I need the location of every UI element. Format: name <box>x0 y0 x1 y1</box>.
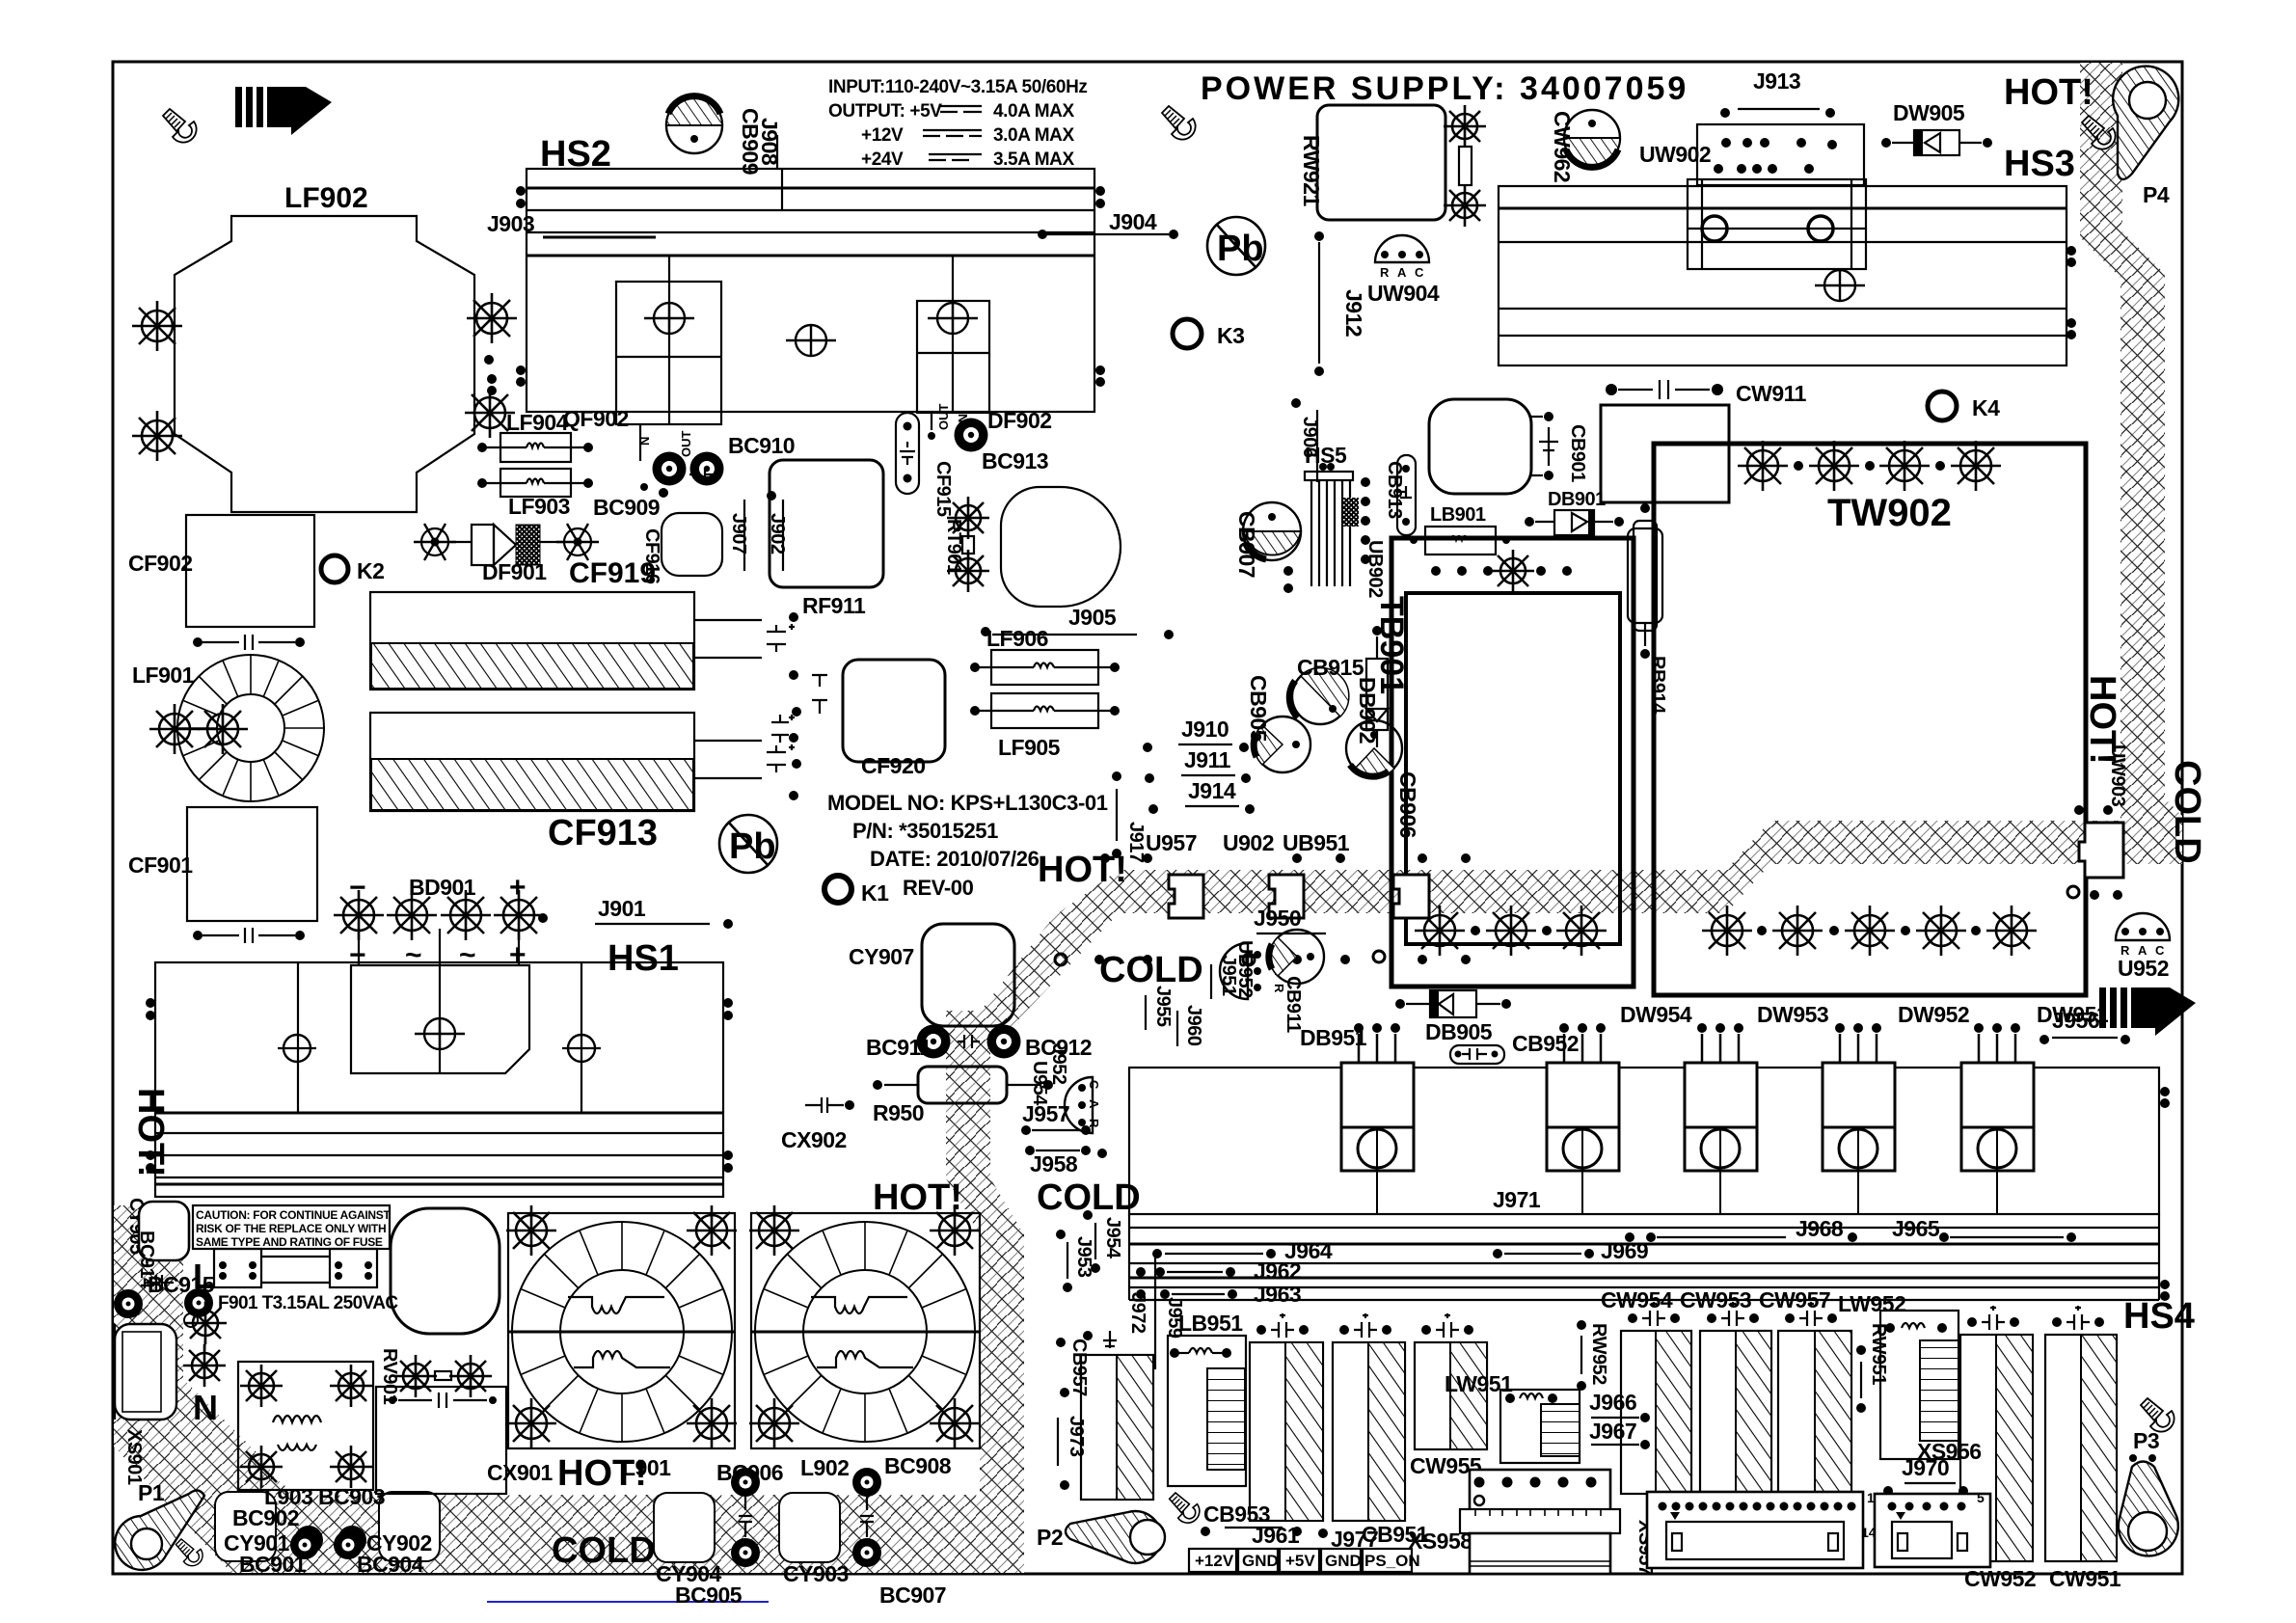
svg-text:HS1: HS1 <box>608 938 679 979</box>
dots <box>789 733 798 743</box>
cap between <box>958 1035 980 1048</box>
inductor LF904 <box>500 433 571 462</box>
svg-text:DATE: 2010/07/26: DATE: 2010/07/26 <box>870 847 1040 871</box>
svg-text:J914: J914 <box>1188 778 1236 803</box>
svg-text:HOT!: HOT! <box>873 1177 962 1218</box>
diode DF902 <box>917 301 989 413</box>
svg-text:POWER SUPPLY: 34007059: POWER SUPPLY: 34007059 <box>1201 70 1688 107</box>
svg-text:J962: J962 <box>1254 1258 1301 1284</box>
svg-text:J963: J963 <box>1254 1282 1301 1307</box>
hole K1 <box>824 876 851 903</box>
svg-text:LB901: LB901 <box>1430 504 1486 526</box>
wire J905 <box>992 634 1137 636</box>
svg-text:CF913: CF913 <box>548 813 658 853</box>
diode DF901 square <box>472 525 494 565</box>
resistor RB914 <box>1628 528 1662 623</box>
HS1 holes <box>284 1035 311 1062</box>
cap sym left of CF920 <box>812 675 827 714</box>
capacitor CB913 <box>1397 455 1416 535</box>
hatch strip bottom horizontal <box>231 1495 1017 1573</box>
dot <box>1169 230 1178 239</box>
svg-text:+: + <box>509 872 527 904</box>
svg-text:CB957: CB957 <box>1068 1339 1090 1396</box>
dot <box>1038 230 1047 239</box>
capacitor CW957 <box>1778 1331 1851 1494</box>
svg-text:HOT!: HOT! <box>130 1088 171 1177</box>
svg-text:DB901: DB901 <box>1548 489 1606 510</box>
dots LF902 <box>484 355 494 365</box>
mount star <box>198 704 248 754</box>
hole K4 <box>1928 392 1957 420</box>
cap sym <box>145 1275 174 1290</box>
capacitor CW953 <box>1700 1331 1771 1494</box>
TW902 bottom stars <box>1702 906 1752 956</box>
svg-text:CX901: CX901 <box>487 1460 554 1485</box>
svg-text:CB915: CB915 <box>1297 655 1364 680</box>
diode DB901 <box>1525 510 1624 535</box>
svg-text:CW951: CW951 <box>2049 1566 2121 1591</box>
capacitor CB-B <box>1333 1342 1405 1521</box>
thermistor RT901 <box>947 497 989 539</box>
star <box>1444 184 1486 227</box>
hatch strip right vertical (top) <box>2080 63 2182 864</box>
capacitor rounded blob <box>1429 399 1531 494</box>
svg-text:UW903: UW903 <box>2107 744 2128 807</box>
toroid L901 <box>506 1205 737 1448</box>
svg-text:J907: J907 <box>728 513 749 555</box>
capacitor CY905 <box>139 1202 189 1260</box>
svg-text:P3: P3 <box>2133 1428 2159 1453</box>
pad BC914 <box>114 1289 143 1318</box>
capacitor CB906 <box>1346 720 1402 776</box>
svg-text:CF901: CF901 <box>128 852 193 878</box>
no-lead symbol Pb <box>719 815 777 873</box>
HS1 dividers <box>297 962 299 1113</box>
IC RF911 <box>770 460 883 587</box>
svg-text:CF915: CF915 <box>932 461 954 517</box>
no-lead symbol Pb <box>1207 217 1265 275</box>
svg-text:CY903: CY903 <box>783 1561 849 1586</box>
tie P2 <box>1066 1511 1165 1563</box>
capacitor CB905 <box>1254 717 1310 772</box>
svg-text:5: 5 <box>1977 1490 1985 1505</box>
svg-text:J957: J957 <box>1022 1101 1069 1126</box>
svg-text:UB951: UB951 <box>1283 830 1350 855</box>
heatsink HS2 body <box>527 169 1094 412</box>
svg-text:DB902: DB902 <box>1355 677 1380 744</box>
capacitor CF901 <box>187 807 317 921</box>
svg-text:J954: J954 <box>1102 1217 1123 1259</box>
svg-text:J968: J968 <box>1796 1216 1844 1241</box>
connector XS957 <box>1647 1492 1863 1568</box>
screw top-left <box>163 109 197 143</box>
svg-text:J905: J905 <box>1068 605 1117 630</box>
svg-text:J960: J960 <box>1183 1005 1204 1046</box>
svg-text:CW911: CW911 <box>1736 381 1807 406</box>
cap plus symbol <box>767 624 795 652</box>
svg-text:L: L <box>193 1257 214 1296</box>
inductor LF903 <box>500 469 571 497</box>
inductor block LW952 <box>1880 1311 1958 1459</box>
svg-text:CF920: CF920 <box>861 753 926 778</box>
transformer TW902 <box>1654 444 2086 995</box>
svg-text:J965: J965 <box>1892 1216 1940 1241</box>
svg-text:GND: GND <box>1242 1552 1279 1570</box>
HS1 band lines <box>155 1112 723 1115</box>
HS3 edge dots <box>2066 246 2076 256</box>
IC UB902 <box>1343 498 1359 527</box>
svg-text:J903: J903 <box>487 211 534 236</box>
screw <box>176 1539 203 1566</box>
svg-text:P4: P4 <box>2143 182 2170 207</box>
transformer TB901 <box>1391 538 1634 987</box>
svg-text:COLD: COLD <box>1099 950 1203 990</box>
svg-text:CAUTION: FOR CONTINUE AGAINST: CAUTION: FOR CONTINUE AGAINST <box>196 1208 391 1222</box>
BD901 hole <box>415 1018 465 1049</box>
svg-text:CB906: CB906 <box>1395 771 1420 838</box>
svg-text:REV-00: REV-00 <box>903 876 974 900</box>
svg-text:L903: L903 <box>264 1484 312 1509</box>
diode DB902 <box>1366 659 1388 730</box>
svg-text:HOT!: HOT! <box>1038 850 1127 890</box>
dots under strip <box>1055 954 1067 965</box>
svg-text:U952: U952 <box>2118 956 2169 981</box>
QF902 hole <box>644 303 694 334</box>
svg-text:R950: R950 <box>873 1100 924 1125</box>
TB901 top star <box>1492 550 1534 592</box>
svg-text:RB914: RB914 <box>1647 656 1668 715</box>
svg-text:J973: J973 <box>1066 1416 1087 1457</box>
cap body oval <box>1001 487 1121 607</box>
svg-text:J972: J972 <box>1127 1292 1148 1334</box>
svg-text:BC910: BC910 <box>728 433 795 458</box>
transistor U954 <box>1065 1077 1101 1133</box>
wire J917 <box>1116 789 1118 841</box>
connector XS956 <box>1875 1494 1990 1567</box>
screw P3 <box>2141 1398 2174 1432</box>
svg-text:P2: P2 <box>1037 1525 1063 1550</box>
dots BC909 <box>659 488 668 498</box>
HS2 fin line <box>527 187 1094 190</box>
opto U957 <box>1169 875 1203 918</box>
svg-text:DB905: DB905 <box>1425 1019 1493 1044</box>
inductor block LB951 <box>1168 1336 1246 1486</box>
svg-text:LF904: LF904 <box>506 410 569 435</box>
cap pair <box>771 715 795 743</box>
capacitor CW952 <box>1960 1335 2033 1561</box>
capacitor CW962 <box>1564 110 1620 167</box>
resistor R950 <box>918 1067 1007 1103</box>
pad BC915 <box>184 1288 213 1317</box>
cap sym <box>1271 1313 1294 1338</box>
svg-text:A: A <box>1397 265 1407 280</box>
svg-text:CW962: CW962 <box>1550 111 1575 182</box>
svg-text:QF902: QF902 <box>563 406 629 431</box>
resistor small <box>1459 147 1472 185</box>
svg-text:BC913: BC913 <box>982 448 1048 473</box>
opto UB951 <box>1393 875 1429 918</box>
filter L903 <box>238 1362 373 1490</box>
svg-text:PS_ON: PS_ON <box>1364 1552 1420 1570</box>
svg-text:K3: K3 <box>1217 323 1244 348</box>
wire J904 <box>1046 233 1169 235</box>
svg-text:−: − <box>349 872 366 904</box>
svg-text:CF919: CF919 <box>569 557 656 589</box>
resistor RW921 <box>1317 105 1445 220</box>
svg-text:CF902: CF902 <box>128 551 193 576</box>
QF902 leads <box>639 424 641 461</box>
svg-text:+5V: +5V <box>1285 1552 1315 1570</box>
svg-text:XS901: XS901 <box>123 1429 145 1485</box>
cap plus symbol <box>767 744 795 772</box>
screw <box>2082 116 2116 149</box>
pad BC904 <box>334 1530 363 1559</box>
capacitor CB-C <box>1415 1342 1487 1449</box>
pad BC901 <box>290 1530 319 1559</box>
diode DF902 vertical lead <box>952 256 954 413</box>
svg-text:LB951: LB951 <box>1178 1311 1243 1336</box>
svg-text:J953: J953 <box>1073 1236 1094 1278</box>
capacitor bank CF919 <box>370 592 694 690</box>
toroid L902 <box>749 1205 980 1448</box>
svg-text:BC904: BC904 <box>357 1552 424 1577</box>
svg-text:CX902: CX902 <box>781 1127 847 1152</box>
svg-text:LW951: LW951 <box>1445 1371 1513 1396</box>
hole K3 <box>1173 319 1202 348</box>
cutout CY901 <box>215 1492 276 1561</box>
terminal labels <box>1189 1549 1412 1572</box>
svg-text:CW953: CW953 <box>1680 1287 1751 1312</box>
DF901 black block <box>516 525 540 565</box>
svg-text:A: A <box>1087 1099 1101 1109</box>
transistor UW904 <box>1375 235 1429 280</box>
svg-text:DW953: DW953 <box>1757 1002 1828 1027</box>
svg-text:J956: J956 <box>2052 1008 2099 1033</box>
transistor BC910 pads <box>653 452 687 486</box>
svg-text:COLD: COLD <box>552 1530 656 1571</box>
hatch diag to bottom strip <box>114 1350 309 1573</box>
blue underline artifact <box>487 1601 769 1603</box>
svg-text:HOT!: HOT! <box>2004 72 2093 113</box>
tie P4 <box>2113 67 2178 179</box>
svg-text:TW902: TW902 <box>1827 492 1952 534</box>
pad BC903 <box>338 1526 366 1555</box>
heatsink HS3 <box>1499 186 2066 365</box>
capacitor CW911 <box>1618 380 1710 399</box>
TB901 bottom stars <box>1415 906 1465 956</box>
svg-text:LF903: LF903 <box>508 494 570 519</box>
svg-text:LF901: LF901 <box>132 663 195 688</box>
svg-text:CW952: CW952 <box>1964 1566 2036 1591</box>
DF902 hole <box>928 303 978 334</box>
transistor QF902 vertical lead <box>668 256 670 424</box>
svg-text:J969: J969 <box>1601 1238 1648 1263</box>
output bus block <box>1129 1068 2159 1214</box>
pad BC905 <box>731 1538 760 1567</box>
svg-text:RISK OF THE REPLACE ONLY WITH: RISK OF THE REPLACE ONLY WITH <box>196 1222 386 1235</box>
cutout CY904 <box>654 1493 715 1562</box>
capacitor CB909 <box>666 96 722 153</box>
cap symbol under CF901 <box>203 928 295 943</box>
svg-text:K2: K2 <box>357 558 384 583</box>
screw CB953 <box>1170 1493 1200 1523</box>
inductor block LW951 <box>1500 1390 1580 1463</box>
CF913 right leads <box>694 740 762 742</box>
connector XS901 <box>115 1324 176 1420</box>
mount star <box>149 704 200 754</box>
capacitor CW954 <box>1621 1331 1691 1494</box>
cutout CY903 <box>779 1493 840 1562</box>
pad BC913 <box>955 419 988 452</box>
pad BC911 <box>917 1025 951 1059</box>
HS2 top pin line <box>781 169 783 210</box>
capacitor CF915 <box>896 413 919 494</box>
wire J902 <box>782 500 784 571</box>
svg-text:GND: GND <box>1325 1552 1362 1570</box>
caution text box <box>193 1205 390 1249</box>
capacitor bank CF913 <box>370 713 694 811</box>
svg-text:J952: J952 <box>1048 1043 1069 1085</box>
svg-text:4.0A MAX: 4.0A MAX <box>993 101 1074 122</box>
svg-text:P1: P1 <box>138 1480 165 1505</box>
svg-text:UB902: UB902 <box>1364 540 1386 598</box>
svg-text:MODEL NO: KPS+L130C3-01: MODEL NO: KPS+L130C3-01 <box>827 791 1108 815</box>
svg-text:BC908: BC908 <box>884 1453 952 1478</box>
opto U902 <box>1269 875 1304 918</box>
svg-text:HS3: HS3 <box>2004 144 2075 184</box>
svg-text:C: C <box>1087 1080 1101 1090</box>
hatch strip right horizontal run <box>1119 821 2182 913</box>
inductor LF906 <box>991 650 1098 685</box>
svg-text:R: R <box>1380 265 1390 280</box>
svg-text:INPUT:110-240V~3.15A 50/60Hz: INPUT:110-240V~3.15A 50/60Hz <box>828 77 1088 97</box>
wire <box>448 541 472 543</box>
hatch strip mid diagonal <box>967 870 1119 1028</box>
svg-text:IN: IN <box>956 414 970 426</box>
dots right bus edge <box>2160 1087 2170 1096</box>
HS2 fin line <box>527 231 1094 233</box>
pad BC908 <box>852 1468 881 1497</box>
BD901 input stars <box>334 890 384 940</box>
mount star <box>132 411 182 461</box>
heatsink HS1 <box>155 962 723 1197</box>
svg-text:BC903: BC903 <box>318 1484 385 1509</box>
capacitor CB901 <box>1548 427 1550 466</box>
HS3 screw hole <box>1815 270 1865 301</box>
gnd sym <box>1103 1331 1117 1348</box>
svg-text:RW951: RW951 <box>1868 1323 1889 1385</box>
inductor LF902 <box>175 216 474 512</box>
svg-text:COLD: COLD <box>2167 760 2207 864</box>
svg-text:J912: J912 <box>1341 289 1366 337</box>
svg-text:DF901: DF901 <box>482 559 547 584</box>
dots <box>789 612 798 622</box>
svg-text:RW921: RW921 <box>1299 135 1324 206</box>
svg-text:OUT: OUT <box>936 404 951 431</box>
svg-text:J901: J901 <box>598 896 646 921</box>
svg-text:RF911: RF911 <box>802 593 866 618</box>
svg-text:DW954: DW954 <box>1620 1002 1692 1027</box>
svg-text:F901 T3.15AL 250VAC: F901 T3.15AL 250VAC <box>218 1293 398 1313</box>
wire J908 <box>776 135 778 169</box>
pad BC902 <box>294 1526 323 1555</box>
svg-text:+12V: +12V <box>1195 1552 1234 1570</box>
svg-text:J950: J950 <box>1254 906 1301 931</box>
DF902 split <box>917 352 989 354</box>
svg-text:J904: J904 <box>1109 209 1157 234</box>
svg-text:CB907: CB907 <box>1234 511 1259 578</box>
transistor QF902 <box>616 282 721 424</box>
svg-text:3.5A MAX: 3.5A MAX <box>993 149 1074 170</box>
HS2 edge dots <box>516 186 526 196</box>
TO220 DW951 <box>1961 1034 2034 1214</box>
tie P3 <box>2119 1454 2178 1555</box>
svg-text:DF902: DF902 <box>987 408 1052 433</box>
cap between <box>739 1497 752 1537</box>
svg-text:J913: J913 <box>1753 68 1800 94</box>
svg-text:J910: J910 <box>1181 717 1229 742</box>
svg-text:CB905: CB905 <box>1246 675 1271 743</box>
svg-text:L901: L901 <box>622 1455 671 1480</box>
HS2 fin line <box>527 209 1094 211</box>
pad BC912 <box>987 1025 1021 1059</box>
svg-text:OUT: OUT <box>679 431 693 458</box>
svg-text:OUTPUT: +5V: OUTPUT: +5V <box>828 101 942 122</box>
svg-text:J911: J911 <box>1184 747 1231 772</box>
star <box>1444 105 1486 148</box>
svg-text:BC905: BC905 <box>675 1582 743 1608</box>
TW902 top stars <box>1738 441 1788 491</box>
svg-text:BC907: BC907 <box>879 1582 946 1608</box>
heatsink HS5 <box>1305 472 1353 586</box>
black arrow right <box>2099 987 2196 1036</box>
svg-text:J966: J966 <box>1589 1390 1636 1415</box>
HS2 mid hole <box>786 325 836 356</box>
svg-text:3.0A MAX: 3.0A MAX <box>993 125 1074 146</box>
pad BC906 <box>731 1468 760 1497</box>
fuse F901 <box>214 1249 261 1287</box>
capacitor CF916 body <box>662 513 722 576</box>
svg-text:BC911: BC911 <box>866 1035 932 1060</box>
capacitor CB957 <box>1081 1355 1153 1500</box>
stars under RV901 <box>394 1355 437 1397</box>
svg-text:CY907: CY907 <box>849 944 914 969</box>
svg-text:L902: L902 <box>800 1455 849 1480</box>
capacitor CF902 <box>186 515 314 627</box>
svg-text:U957: U957 <box>1146 830 1197 855</box>
capacitor CX902 <box>805 1097 844 1113</box>
capacitor CB-A <box>1250 1342 1323 1521</box>
wire J903 <box>543 236 656 239</box>
TO220 DB951 <box>1341 1034 1414 1214</box>
hatch strip left vertical at XS901 <box>114 1205 270 1540</box>
DF901 stars <box>414 524 456 560</box>
svg-text:CB952: CB952 <box>1512 1031 1579 1056</box>
svg-text:1: 1 <box>1861 1525 1869 1540</box>
svg-text:BC909: BC909 <box>593 495 660 520</box>
mount star <box>467 293 517 343</box>
svg-text:UW904: UW904 <box>1367 281 1440 306</box>
inductor LF905 <box>991 693 1098 728</box>
svg-text:HS4: HS4 <box>2123 1296 2195 1337</box>
inductor LB901 <box>1425 527 1496 555</box>
cap symbol <box>689 469 715 480</box>
svg-text:UW902: UW902 <box>1639 142 1711 167</box>
cutout CY902 <box>379 1492 440 1561</box>
capacitor CB952 <box>1450 1045 1504 1064</box>
cap symbol under CF902 <box>203 635 295 650</box>
QF902 split <box>616 356 721 358</box>
